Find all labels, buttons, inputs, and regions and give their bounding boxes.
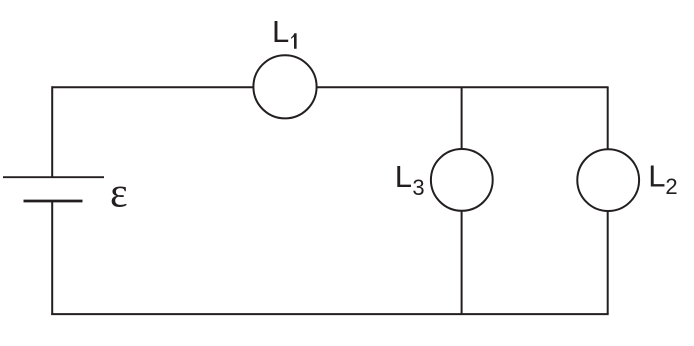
- svg-text:L: L: [272, 14, 289, 49]
- svg-text:L: L: [395, 159, 412, 194]
- svg-text:ε: ε: [110, 170, 128, 216]
- svg-text:L: L: [648, 159, 665, 194]
- svg-text:3: 3: [412, 175, 424, 200]
- svg-text:2: 2: [665, 174, 677, 199]
